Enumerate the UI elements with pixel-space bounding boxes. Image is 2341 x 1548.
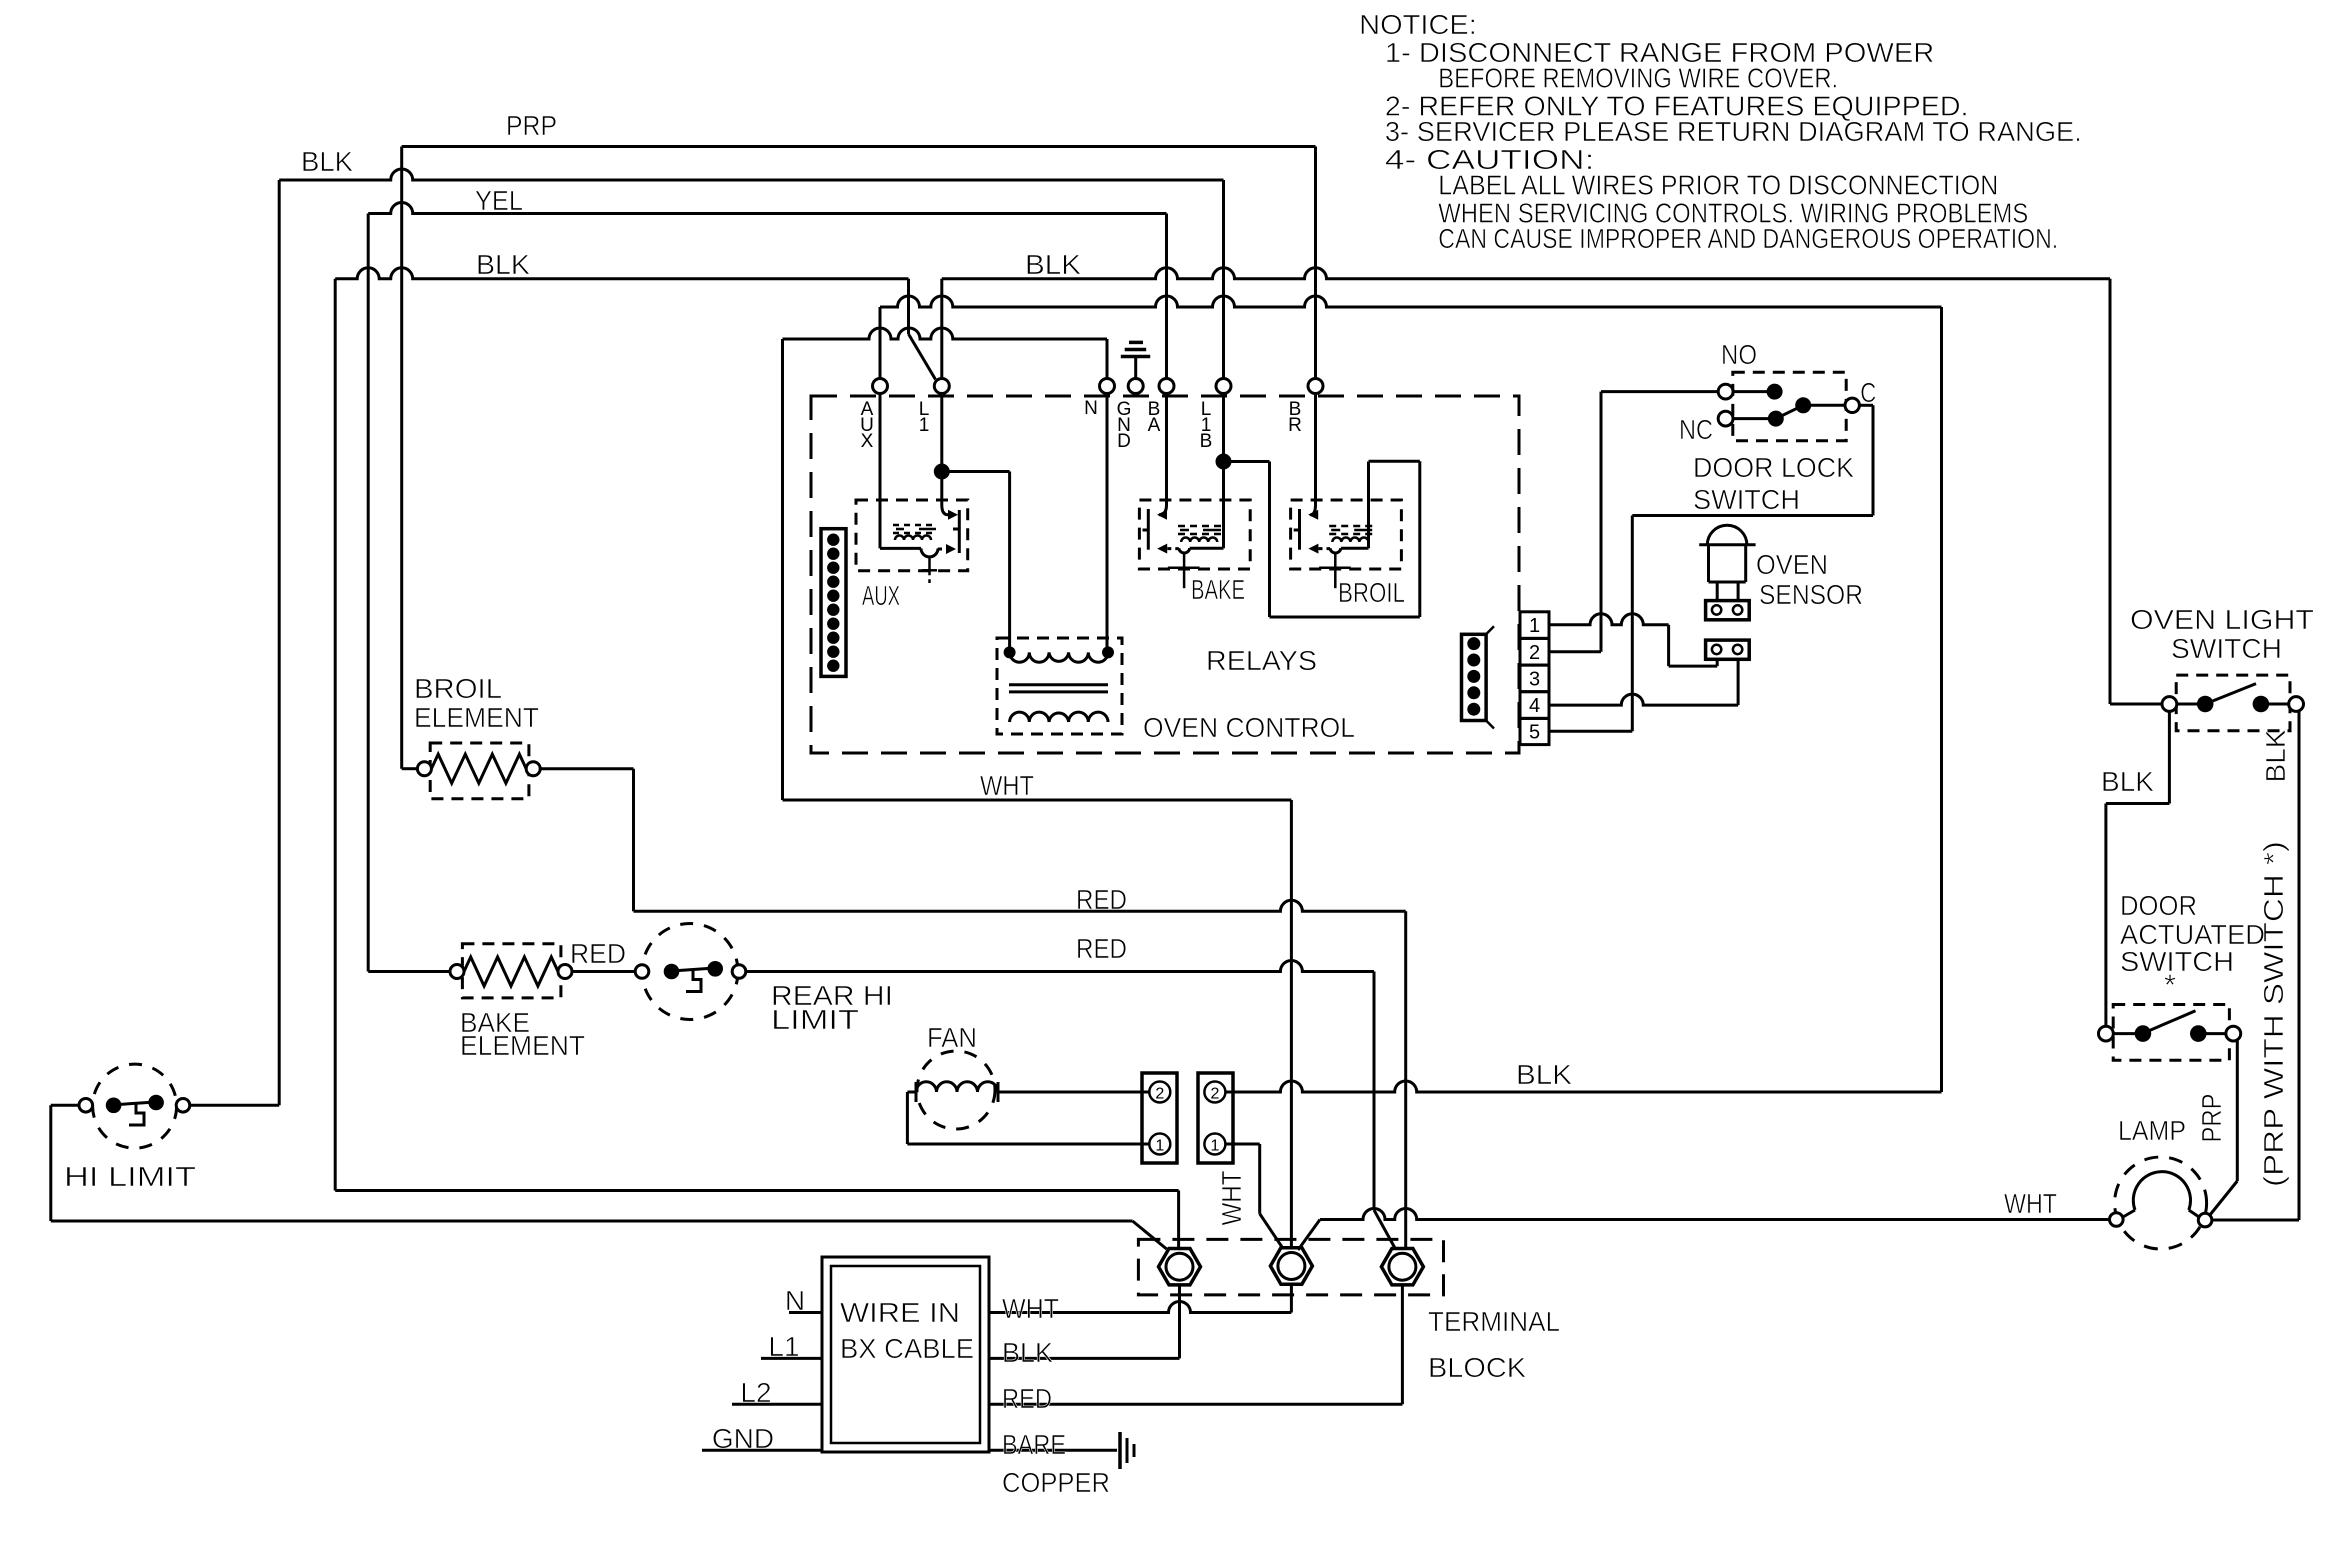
svg-text:*: * — [2164, 969, 2176, 1002]
svg-text:NC: NC — [1679, 414, 1713, 445]
svg-text:BLK: BLK — [1025, 249, 1081, 280]
svg-text:LAMP: LAMP — [2118, 1115, 2186, 1146]
svg-text:RED: RED — [570, 938, 626, 969]
svg-text:C: C — [1860, 377, 1876, 408]
svg-text:SENSOR: SENSOR — [1759, 579, 1863, 610]
svg-text:PRP: PRP — [2196, 1094, 2227, 1143]
svg-text:WIRE IN: WIRE IN — [840, 1297, 960, 1328]
svg-text:HI LIMIT: HI LIMIT — [64, 1161, 196, 1192]
svg-text:CAN CAUSE IMPROPER AND DANGERO: CAN CAUSE IMPROPER AND DANGEROUS OPERATI… — [1438, 223, 2058, 254]
svg-text:WHT: WHT — [2004, 1188, 2057, 1219]
svg-text:TERMINAL: TERMINAL — [1428, 1306, 1560, 1337]
svg-text:OVEN CONTROL: OVEN CONTROL — [1143, 712, 1355, 743]
svg-text:RED: RED — [1002, 1383, 1052, 1414]
svg-text:1: 1 — [919, 415, 930, 436]
svg-text:3: 3 — [1529, 668, 1540, 690]
svg-text:X: X — [861, 431, 874, 452]
svg-text:RELAYS: RELAYS — [1206, 645, 1317, 676]
svg-text:BLK: BLK — [2260, 729, 2291, 782]
svg-text:OVEN: OVEN — [1756, 549, 1828, 580]
svg-text:DOOR: DOOR — [2120, 890, 2197, 921]
svg-text:AUX: AUX — [862, 580, 900, 611]
svg-text:BAKE: BAKE — [1191, 574, 1245, 605]
svg-text:R: R — [1288, 415, 1302, 436]
svg-text:OVEN LIGHT: OVEN LIGHT — [2130, 604, 2314, 635]
svg-text:DOOR LOCK: DOOR LOCK — [1693, 452, 1854, 483]
svg-text:BLOCK: BLOCK — [1428, 1352, 1526, 1383]
svg-text:FAN: FAN — [927, 1022, 977, 1053]
svg-text:NO: NO — [1721, 339, 1757, 370]
svg-text:RED: RED — [1076, 884, 1127, 915]
svg-text:ELEMENT: ELEMENT — [414, 702, 539, 733]
svg-text:RED: RED — [1076, 933, 1127, 964]
svg-text:3- SERVICER PLEASE RETURN DIAG: 3- SERVICER PLEASE RETURN DIAGRAM TO RAN… — [1385, 116, 2082, 147]
svg-text:BLK: BLK — [476, 249, 530, 280]
svg-text:SWITCH: SWITCH — [1693, 484, 1800, 515]
svg-text:2: 2 — [1210, 1086, 1219, 1103]
svg-text:ELEMENT: ELEMENT — [460, 1030, 585, 1061]
svg-text:WHT: WHT — [1216, 1171, 1247, 1226]
svg-text:WHT: WHT — [1002, 1293, 1059, 1324]
svg-text:SWITCH: SWITCH — [2171, 633, 2282, 664]
svg-text:4: 4 — [1529, 695, 1540, 717]
svg-text:L2: L2 — [740, 1377, 771, 1408]
svg-text:YEL: YEL — [475, 185, 523, 216]
svg-text:D: D — [1117, 431, 1131, 452]
svg-text:BARE: BARE — [1002, 1429, 1066, 1460]
svg-text:GND: GND — [712, 1423, 774, 1454]
svg-text:L1: L1 — [768, 1331, 799, 1362]
svg-text:B: B — [1200, 431, 1213, 452]
svg-text:LABEL ALL WIRES PRIOR TO DISCO: LABEL ALL WIRES PRIOR TO DISCONNECTION — [1438, 170, 1998, 201]
svg-text:BLK: BLK — [301, 146, 353, 177]
svg-text:A: A — [1148, 415, 1161, 436]
svg-text:BROIL: BROIL — [1338, 577, 1405, 608]
svg-text:SWITCH: SWITCH — [2120, 946, 2234, 977]
svg-text:WHT: WHT — [980, 770, 1034, 801]
svg-text:1: 1 — [1155, 1138, 1164, 1155]
svg-text:PRP: PRP — [506, 110, 557, 141]
svg-text:5: 5 — [1529, 722, 1540, 744]
svg-text:BEFORE REMOVING WIRE COVER.: BEFORE REMOVING WIRE COVER. — [1438, 63, 1838, 94]
svg-text:NOTICE:: NOTICE: — [1359, 9, 1477, 40]
svg-text:LIMIT: LIMIT — [771, 1004, 859, 1035]
svg-text:(PRP WITH SWITCH *): (PRP WITH SWITCH *) — [2258, 841, 2289, 1187]
svg-text:COPPER: COPPER — [1002, 1467, 1110, 1498]
svg-text:BLK: BLK — [2101, 766, 2154, 797]
svg-text:BLK: BLK — [1002, 1337, 1053, 1368]
svg-text:1: 1 — [1210, 1138, 1219, 1155]
svg-text:2: 2 — [1155, 1086, 1164, 1103]
svg-text:BLK: BLK — [1516, 1059, 1572, 1090]
svg-text:BROIL: BROIL — [414, 673, 502, 704]
svg-text:N: N — [1084, 398, 1098, 419]
svg-text:N: N — [785, 1285, 805, 1316]
svg-text:2: 2 — [1529, 642, 1540, 664]
svg-text:BX CABLE: BX CABLE — [840, 1333, 974, 1364]
svg-text:1: 1 — [1529, 615, 1540, 637]
